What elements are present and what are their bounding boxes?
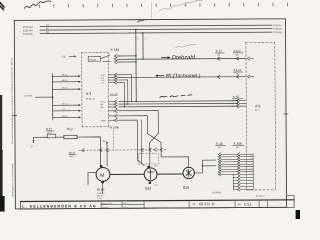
drawing frame bbox=[14, 19, 286, 209]
svg-text:Weitergabe nur mit Genehmigung: Weitergabe nur mit Genehmigung bbox=[11, 164, 14, 197]
X144 route wires to B32/B29 bbox=[117, 111, 158, 167]
thermal switch inside A3 bbox=[88, 56, 101, 61]
svg-text:-X 144: -X 144 bbox=[109, 126, 119, 130]
svg-text:50.211.11: 50.211.11 bbox=[256, 196, 266, 198]
long wire 2 to X55 bbox=[119, 102, 238, 105]
svg-text:5 a 1: 5 a 1 bbox=[154, 185, 158, 187]
sensor B29 bbox=[183, 167, 194, 178]
handwriting small above bus near x140 bbox=[137, 20, 144, 22]
motor M12 bbox=[96, 167, 110, 181]
svg-text:85 (Tachomet.): 85 (Tachomet.) bbox=[166, 73, 201, 79]
svg-text:Drehzahl: Drehzahl bbox=[172, 55, 196, 61]
svg-text:A 3: A 3 bbox=[86, 92, 91, 96]
svg-text:A 8: A 8 bbox=[255, 104, 260, 108]
svg-text:Feucht: Feucht bbox=[89, 58, 96, 61]
handwriting 6 48V over long wires bbox=[160, 95, 192, 98]
svg-text:X 146: X 146 bbox=[110, 48, 119, 52]
svg-text:Für diese Zeichnung behalten w: Für diese Zeichnung behalten wir uns all… bbox=[11, 91, 14, 144]
svg-text:5/6: 5/6 bbox=[236, 147, 239, 149]
svg-text:Bl.: Bl. bbox=[238, 202, 241, 206]
svg-text:FOLGEBL: FOLGEBL bbox=[212, 192, 222, 194]
svg-text:Tacho: Tacho bbox=[101, 120, 106, 122]
fold mark bbox=[150, 2, 152, 19]
svg-text:5/6: 5/6 bbox=[218, 147, 221, 149]
long wire 1 to X55 bbox=[119, 100, 238, 103]
svg-text:B32: B32 bbox=[145, 187, 151, 191]
unit A8 dashed enclosure bbox=[246, 42, 276, 190]
svg-text:KB 3.1: KB 3.1 bbox=[62, 80, 68, 82]
svg-text:Nr.: Nr. bbox=[193, 202, 197, 206]
X146 pin wires to verticals bbox=[117, 55, 136, 57]
B29 wires to X35 field bbox=[194, 160, 216, 173]
svg-text:50 211 11: 50 211 11 bbox=[199, 202, 215, 206]
A8 inside pin chevrons on entry wires bbox=[247, 57, 250, 78]
svg-text:PE: PE bbox=[62, 55, 66, 59]
long wire 3 to X55 bbox=[119, 105, 238, 108]
left margin vertical fine print bbox=[10, 57, 14, 196]
wire vertical from bus A5 down (node to X146/X145 field) bbox=[135, 29, 137, 101]
shaft link B32-B29 bbox=[157, 173, 183, 175]
svg-text:KB 2.1: KB 2.1 bbox=[62, 74, 68, 76]
svg-text:X 35: X 35 bbox=[216, 142, 223, 146]
pencil note (kompl.) above Drehzahl wire bbox=[159, 0, 202, 11]
svg-text:C/7-A6: C/7-A6 bbox=[24, 95, 32, 98]
X35-X106 bridge wires bbox=[221, 154, 237, 174]
bus line C/10-A6 bbox=[40, 32, 272, 33]
svg-text:C/10-A3: C/10-A3 bbox=[273, 31, 282, 34]
svg-text:5/12: 5/12 bbox=[70, 156, 74, 158]
annotation arrow 85 Tacho bbox=[156, 75, 164, 77]
bus line C/10-A4 bbox=[40, 25, 272, 26]
svg-text:X 55: X 55 bbox=[233, 95, 240, 99]
svg-text:X 106: X 106 bbox=[233, 142, 242, 146]
wire vertical from bus A6 down to Drehzahl wire bbox=[142, 33, 144, 59]
handwriting scribble top-left corner bbox=[24, 1, 51, 8]
annotation arrow Drehzahl bbox=[162, 56, 170, 58]
svg-text:C/11: C/11 bbox=[244, 203, 252, 207]
dashed box above B32 bbox=[139, 153, 159, 164]
left stub bus into A3 bbox=[51, 74, 53, 120]
tacho B32 bbox=[144, 168, 157, 181]
feeder for lower X106 group bbox=[232, 174, 234, 189]
X145 pin stubs left bbox=[108, 75, 114, 83]
scanner black corner bottom-right bbox=[296, 210, 300, 219]
svg-text:KB 1.1: KB 1.1 bbox=[62, 103, 68, 105]
svg-text:KB 4.1: KB 4.1 bbox=[62, 87, 68, 89]
X35 pin column bbox=[218, 153, 221, 176]
bus labels right bbox=[273, 24, 283, 34]
terminal R+ bbox=[106, 142, 108, 144]
svg-text:A2: A2 bbox=[231, 100, 233, 103]
wire from left to K12 and down-bend bbox=[33, 137, 47, 142]
connector X145 pins bbox=[114, 73, 117, 84]
svg-text:2 b 1: 2 b 1 bbox=[154, 165, 158, 167]
svg-text:L. KELLENBERGER & CO AG: L. KELLENBERGER & CO AG bbox=[22, 204, 96, 208]
connector X146 pins bbox=[114, 54, 117, 63]
unit A3 dashed enclosure bbox=[82, 52, 109, 127]
svg-text:X13: X13 bbox=[69, 151, 75, 155]
svg-text:C/10-A5: C/10-A5 bbox=[23, 28, 33, 32]
svg-text:B29: B29 bbox=[183, 186, 189, 190]
shaft link M12-B32 bbox=[110, 173, 144, 175]
svg-text:X 17: X 17 bbox=[215, 49, 222, 53]
svg-text:X145: X145 bbox=[110, 93, 118, 97]
frame mid ticks bbox=[13, 114, 288, 116]
svg-text:Ers. f.: Ers. f. bbox=[124, 202, 129, 205]
ruler tick marks top bbox=[39, 3, 287, 7]
X106 pin column bbox=[237, 153, 240, 191]
svg-text:X114: X114 bbox=[233, 68, 241, 72]
svg-text:Visum st: Visum st bbox=[102, 206, 109, 209]
svg-text:KB 6.1: KB 6.1 bbox=[62, 116, 68, 118]
X106 wires right to gather line bbox=[240, 154, 253, 189]
X144 pin stubs and labels bbox=[109, 102, 115, 121]
svg-text:A4: A4 bbox=[231, 105, 233, 108]
svg-text:C/10-A4: C/10-A4 bbox=[23, 25, 33, 29]
bus labels left bbox=[23, 24, 49, 36]
scanner black edge left bbox=[0, 95, 2, 211]
svg-text:2 min: 2 min bbox=[97, 198, 101, 200]
dashed lead below X144 bbox=[113, 130, 115, 150]
svg-text:K12: K12 bbox=[46, 127, 52, 131]
svg-text:50.207.31: 50.207.31 bbox=[86, 98, 96, 100]
wire R12 to M12 bbox=[77, 137, 100, 166]
svg-text:M 12: M 12 bbox=[97, 188, 105, 192]
svg-text:C/10-A6: C/10-A6 bbox=[23, 32, 33, 36]
connector X144 pins bbox=[114, 100, 117, 122]
svg-text:2.2: 2.2 bbox=[62, 109, 65, 111]
svg-text:Ers. d.: Ers. d. bbox=[124, 206, 129, 209]
paper inner area bbox=[15, 20, 286, 208]
svg-text:M: M bbox=[100, 173, 104, 179]
X145 wires right to verticals bbox=[117, 74, 131, 76]
title block bar bbox=[21, 200, 294, 202]
svg-text:A3: A3 bbox=[231, 102, 233, 105]
bus line C/10-A5 bbox=[40, 29, 272, 30]
svg-text:Nachdruck verboten gem. DIN 34: Nachdruck verboten gem. DIN 34 bbox=[10, 57, 13, 90]
verticals dropping to long pair bbox=[130, 75, 132, 102]
wire Drehzahl (to X17/X112, A8) bbox=[117, 58, 246, 61]
vertical into B32 left bbox=[140, 120, 142, 163]
svg-text:Datum 17.11: Datum 17.11 bbox=[102, 202, 112, 205]
svg-text:X112: X112 bbox=[233, 49, 241, 53]
svg-text:50.1: 50.1 bbox=[255, 110, 259, 112]
svg-text:R12: R12 bbox=[67, 127, 73, 131]
svg-text:M1-: M1- bbox=[100, 104, 104, 106]
wire 85/Tacho (X145 to X114, A8) bbox=[117, 76, 246, 79]
